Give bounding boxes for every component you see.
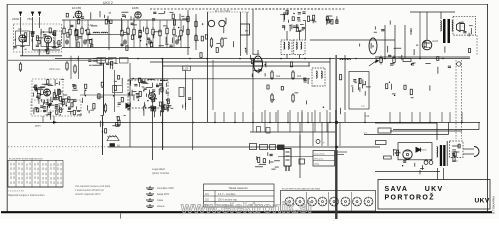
bus drop x330 (329, 112, 331, 122)
resistor R13 rf row (166, 26, 168, 36)
tube socket 7 (353, 197, 362, 206)
wire antenna 1 down (20, 17, 22, 35)
oscillator coil box (128, 80, 168, 108)
legend ground symbol 1 (146, 186, 154, 189)
svg-text:B250: B250 (422, 150, 428, 152)
bus lower drop x340 (339, 122, 341, 146)
wire rf drop 10 (146, 20, 148, 28)
converter lower parts (34, 100, 82, 120)
wire mixer top dash (207, 11, 250, 13)
tube socket strip frame (281, 191, 376, 212)
rf row top labels (66, 11, 189, 25)
mains lead 2 (463, 153, 474, 155)
antenna terminal 1 (19, 12, 21, 17)
resistor R12 rf row (159, 28, 161, 38)
tube V3 EF89 (135, 12, 141, 18)
bus drop x235 (234, 112, 236, 122)
bus drop x270 (269, 112, 271, 122)
capacitor C60 (257, 127, 261, 133)
table column 1 (15, 160, 17, 187)
socket divider 6 (351, 192, 353, 211)
wire osc h (130, 78, 310, 80)
resistor R4 rf row (81, 26, 83, 36)
fuse box (378, 128, 391, 133)
bus drop x312 (311, 112, 313, 122)
lamp box C (250, 144, 257, 150)
wire mixer chain 2 (195, 14, 197, 50)
svg-text:240Ω: 240Ω (12, 17, 20, 21)
coil T2b (288, 42, 289, 49)
fold mark (120, 214, 122, 219)
svg-text:o.gl: o.gl (361, 106, 365, 108)
resistor R8 rf row (133, 27, 135, 37)
tube V6 EABC80 (372, 45, 374, 47)
parts table header sep (204, 190, 275, 192)
bus drop x288 (287, 112, 289, 122)
AM converter parts (33, 79, 81, 115)
svg-text:ECC85 EF89 ECH81 EABC80 EL: ECC85 EF89 ECH81 EABC80 EL84 EM84 (282, 187, 321, 190)
wire mid bus 2 (163, 65, 310, 67)
resistor R19b (221, 37, 223, 48)
FM front-end parts (13, 28, 60, 55)
if mid labels (267, 62, 342, 115)
bus drop x215 (214, 112, 216, 122)
triode section b (219, 20, 225, 26)
tube socket 8 (364, 197, 373, 206)
pointer arrow line 2 (335, 154, 344, 156)
resistor R9 rf row (139, 28, 141, 38)
wire v300 (299, 135, 301, 178)
resistor R21 (271, 70, 273, 80)
switch wafer box 3 (120, 58, 129, 64)
resistor R19a (210, 37, 212, 48)
junction blob (335, 121, 338, 124)
coil T4a (316, 71, 317, 78)
tube V5 ECH81 hexode (149, 93, 156, 100)
coil choke (340, 59, 350, 60)
oscillator cluster parts (127, 78, 171, 116)
rf row labels left (67, 25, 98, 48)
bus drop x253 (252, 112, 254, 122)
capacitor C5 rf row (175, 39, 179, 45)
wire rf drop low 14 (173, 37, 175, 48)
AM converter shield box (32, 79, 63, 111)
wire rf drop 5 (87, 20, 89, 28)
cell box 3 (278, 145, 285, 150)
wire fm link (33, 49, 61, 51)
crease mark mid (335, 110, 337, 150)
wire rf drop 13 (166, 20, 168, 28)
svg-text:2k2: 2k2 (297, 74, 302, 78)
wire rf drop low 6 (121, 38, 123, 48)
tube socket 2 (296, 197, 305, 206)
bus drop x262 (261, 112, 263, 122)
if mid parts (282, 24, 305, 31)
wire rf drop low 2 (69, 37, 71, 48)
parts table frame (204, 184, 275, 207)
bus drop x320 (319, 112, 321, 122)
wire rf drop 12 (159, 20, 161, 28)
wire drop x265 (264, 110, 266, 132)
primary winding (440, 21, 441, 32)
wire det v1 (384, 25, 386, 58)
wire rf drop low 15 (180, 38, 182, 48)
dial lamp (457, 62, 461, 66)
wire osc vertical main (162, 58, 164, 150)
crease mark upper (335, 55, 337, 110)
wire v253 top (252, 9, 254, 54)
capacitor C61 (266, 128, 270, 134)
bus drop x442 (441, 112, 443, 122)
b+ rail parts (382, 55, 451, 73)
svg-text:EF89: EF89 (132, 6, 139, 10)
title block frame (378, 180, 490, 210)
wire rf drop 14 (173, 20, 175, 28)
wire v109 (108, 20, 110, 50)
svg-text:LZS: LZS (184, 67, 189, 71)
border frame bottom (1, 211, 492, 213)
right mid parts (386, 82, 430, 99)
junction blob 2 (335, 146, 338, 149)
resistor R18 (195, 34, 197, 43)
svg-text:Tabela napetosti: Tabela napetosti (229, 186, 248, 190)
capacitor C2 rf row (83, 39, 87, 45)
heater nest riser 1 (478, 122, 480, 129)
bus drop x412 (411, 112, 413, 122)
wire v 185 (185, 71, 187, 111)
wire drop 43 (42, 116, 44, 122)
loudspeaker (457, 23, 465, 32)
wire det v3 (404, 25, 406, 58)
takeoff arrow (369, 60, 379, 66)
if input parts (250, 54, 266, 77)
bus drop x224 (223, 112, 225, 122)
wire rf drop 3 (75, 20, 77, 28)
wire pot vertical low (102, 115, 104, 155)
wire drop x302 (301, 110, 303, 132)
wire rf drop 2 (69, 20, 71, 28)
svg-text:220V: 220V (452, 160, 458, 163)
tube V2 EC92 (75, 11, 82, 18)
svg-text:UKV gram.: UKV gram. (314, 159, 324, 161)
coil T2a (284, 42, 285, 49)
svg-text:Vse napetosti merjene proti ša: Vse napetosti merjene proti šasiji (75, 185, 111, 188)
triode section a (208, 20, 214, 26)
parts table row 2 (204, 195, 275, 197)
wire drop 63-78 (78, 56, 80, 79)
resistor R15 rf row (180, 28, 182, 38)
wire v253 (252, 62, 254, 110)
el84 anode wire (426, 12, 428, 36)
bus drop x420 (419, 112, 421, 122)
resistor R30 (380, 56, 382, 65)
resistor R25 (66, 61, 68, 71)
resistor R10 rf row (146, 26, 148, 36)
svg-text:omrežni napetosti 220 V: omrežni napetosti 220 V (75, 193, 101, 196)
switch wafer box 1 (97, 58, 106, 64)
bus drop x400 (399, 112, 401, 122)
wire if vertical b2 (299, 55, 301, 59)
tube socket 3 (308, 197, 317, 206)
pointer arrow line 1 (335, 151, 347, 153)
wire mixer vertical 3 (240, 12, 242, 24)
bus lower drop x328 (327, 122, 329, 146)
capacitor C4 rf row (148, 39, 152, 45)
power transformer core (440, 145, 446, 166)
bus drop x365 (364, 112, 366, 122)
pt primary winding (437, 147, 438, 158)
wire v330 (329, 58, 331, 110)
detector parts (360, 21, 419, 60)
svg-text:1k2: 1k2 (276, 74, 281, 78)
ratio det parts (351, 78, 371, 95)
wire antenna 3 down (39, 17, 41, 28)
antenna terminal 3 (38, 12, 40, 17)
wire rf drop 1 (63, 20, 65, 28)
parts table col sep (214, 191, 216, 208)
small box 300 (299, 159, 305, 164)
resistor R11 rf row (152, 27, 154, 37)
ps wire loop (398, 143, 432, 160)
wire if vertical a2 (286, 55, 288, 59)
wire am bus (8, 59, 106, 61)
socket divider 4 (328, 192, 330, 211)
wire rf drop low 9 (139, 38, 141, 48)
output transformer core (443, 19, 450, 43)
resistor R28 (104, 103, 106, 113)
wire rf drop low 4 (81, 36, 83, 48)
IF can T1 (241, 24, 250, 35)
resistor R22 (271, 93, 273, 103)
resistor R16 (187, 28, 189, 37)
speaker lead dashed (476, 35, 478, 55)
table column 6 (55, 160, 57, 187)
resistor R6 rf row (121, 28, 123, 38)
svg-text:šasija 110V: šasija 110V (157, 193, 170, 196)
coil T4b (321, 71, 322, 78)
svg-text:UKV: UKV (425, 186, 444, 193)
wire fm cathode (22, 42, 24, 56)
bus drop x450 (449, 112, 451, 122)
wire ps v1 (436, 123, 438, 140)
capacitor C1 rf row (65, 39, 69, 45)
svg-text:6,3 V ~ osvetlitev: 6,3 V ~ osvetlitev (218, 193, 236, 196)
wire rf drop low 1 (63, 36, 65, 48)
bus lower drop x300 (299, 122, 301, 146)
below bus parts (88, 58, 118, 69)
FM tuner shield box (14, 24, 62, 52)
wire if vertical b (299, 31, 301, 40)
tube V8 EF89 IF (254, 50, 263, 72)
tube V6 body (369, 38, 377, 54)
resistor R14 rf row (173, 27, 175, 37)
resistor R15 (187, 15, 189, 24)
loudspeaker box (453, 16, 476, 35)
resistor R26 (74, 64, 76, 74)
ps small parts (393, 149, 401, 156)
bus drop x390 (389, 112, 391, 122)
wire rf drop 7 (127, 20, 129, 28)
bus lower drop x313 (312, 122, 314, 146)
IF can T4 (312, 68, 325, 86)
loudspeaker hatched (107, 135, 119, 140)
wire rf drop low 8 (133, 37, 135, 48)
wire ps h1 (375, 122, 437, 124)
cell box 2 (270, 145, 276, 150)
wire mixer vertical 2b (212, 60, 214, 110)
coil T3b (301, 42, 302, 49)
svg-text:1 2 3 4 5 6 7 8 9: 1 2 3 4 5 6 7 8 9 (8, 191, 25, 193)
wire if top bus (255, 8, 345, 10)
wire v121 (121, 18, 123, 32)
resistor R23 (292, 70, 294, 80)
padder box (179, 88, 184, 97)
resistor R2 rf row (69, 27, 71, 37)
ratio detector box (349, 72, 369, 110)
bus drop x243 (242, 112, 244, 122)
svg-text:izklop: izklop (314, 164, 320, 166)
legend ground symbol 2 (146, 192, 154, 195)
svg-text:Lega stikal:: Lega stikal: (152, 167, 165, 171)
wire rf drop low 13 (166, 36, 168, 48)
svg-text:www.elektronik.si: www.elektronik.si (180, 201, 312, 217)
wire det v2 (394, 25, 396, 58)
bus junction dots (161, 122, 463, 124)
svg-text:SAVA: SAVA (385, 186, 409, 193)
dial lamp lead 2 (461, 60, 463, 139)
bus lower drop x322 (321, 122, 323, 146)
table column 3 (31, 160, 33, 187)
border frame left (6, 4, 8, 212)
info box row 2 (313, 160, 335, 162)
shield can V1a (16, 31, 30, 46)
wire rf drop low 3 (75, 38, 77, 48)
wire ps h2 (390, 130, 462, 132)
bus drop x462 (461, 112, 463, 122)
tube socket 5 (330, 197, 339, 206)
wire output top (410, 11, 455, 13)
svg-text:priklop zvočnika: priklop zvočnika (152, 172, 170, 175)
svg-text:UKV: UKV (475, 197, 490, 204)
antenna terminal 2 (31, 12, 33, 17)
heater nest riser 2 (448, 122, 450, 134)
svg-text:UKV 2: UKV 2 (103, 1, 113, 5)
switch wafer box 2 (109, 58, 117, 64)
tube socket 4 (318, 197, 327, 206)
wire top bus (62, 19, 188, 21)
wire fm bus short (20, 55, 62, 57)
wire main B+ bus (55, 58, 470, 60)
border frame top (7, 4, 488, 6)
wire mixer chain 1 (187, 10, 189, 55)
wire drop x327 (326, 110, 328, 132)
heater nest line 1 (393, 129, 479, 131)
capacitor C30 (135, 0, 137, 1)
svg-text:z instrumentom 20 kΩ/V pri: z instrumentom 20 kΩ/V pri (75, 189, 104, 192)
svg-text:antena: antena (157, 205, 165, 208)
wire if vertical a (286, 31, 288, 40)
bus drop x302 (301, 112, 303, 122)
transformer lead b (443, 168, 445, 180)
voltage selector box (450, 141, 464, 158)
speaker terminal block (110, 143, 115, 146)
wire v 192 (192, 79, 194, 150)
border frame right (487, 4, 489, 212)
svg-text:Napetosti merjene z instrument: Napetosti merjene z instrumentom (8, 194, 44, 197)
wire top bus 2 (150, 8, 320, 10)
svg-text:masa: masa (157, 199, 164, 202)
cell box 1 (260, 145, 268, 150)
converter box lower extension (31, 100, 81, 116)
table tick marks (11, 163, 61, 185)
info box row 1 (313, 155, 335, 157)
triode V1a ECC85 (19, 35, 26, 42)
transformer lead a (437, 168, 439, 180)
AVC line solid (108, 146, 380, 148)
capacitor C50 electrolytic pair (424, 159, 433, 164)
wire v345 (344, 55, 346, 110)
osc lower parts (145, 97, 192, 117)
wire mixer vertical 2 (207, 12, 209, 122)
legend ground symbol 3 (146, 198, 154, 201)
wire drop x315 (314, 110, 316, 132)
tube socket 1 (285, 197, 294, 206)
ot top wire (440, 12, 442, 19)
if entry parts (280, 10, 313, 22)
legend ground symbol 4 (146, 204, 154, 207)
wire v336 (336, 55, 338, 150)
output section parts (424, 22, 473, 52)
svg-text:gram.: gram. (35, 125, 42, 128)
b+ junction dots (77, 58, 444, 60)
info box (313, 151, 335, 167)
detector diode (126, 104, 130, 108)
wire mid bus 1 (150, 61, 330, 63)
AGC dashed line (8, 146, 108, 148)
wire drop 63-71 (70, 56, 72, 79)
rf row labels right (121, 23, 184, 50)
resistor R20 (19, 62, 21, 72)
rectifier tube EZ80 (403, 150, 412, 159)
table column 5 (47, 160, 49, 187)
resistor R1 rf row (63, 26, 65, 36)
svg-text:R TISKARNA: R TISKARNA (492, 196, 496, 214)
wire rf mid bus (62, 47, 190, 49)
parts table row 3 (204, 201, 275, 203)
svg-text:+: + (323, 141, 325, 145)
volume pot parts (83, 76, 131, 114)
wire rf drop low 7 (127, 36, 129, 48)
if arrow parts (313, 15, 339, 25)
svg-text:ECC85: ECC85 (72, 6, 81, 10)
bus drop x430 (429, 112, 431, 122)
wire band link (88, 33, 130, 35)
dial lamp lead 1 (455, 60, 457, 139)
wire v130 (129, 63, 131, 110)
tube V5a ECH81 triode (44, 89, 51, 96)
table column 4 (39, 160, 41, 187)
wire v130 low (129, 110, 131, 147)
wire drop x278 (277, 110, 279, 132)
svg-text:51k: 51k (365, 114, 370, 118)
secondary winding (452, 21, 453, 32)
power section bottom line (375, 171, 440, 173)
resistor R3 rf row (75, 28, 77, 38)
wire rf drop 6 (121, 20, 123, 28)
wire rf drop low 11 (152, 37, 154, 48)
svg-text:EL84: EL84 (433, 40, 439, 43)
bus drop x276 (275, 112, 277, 122)
